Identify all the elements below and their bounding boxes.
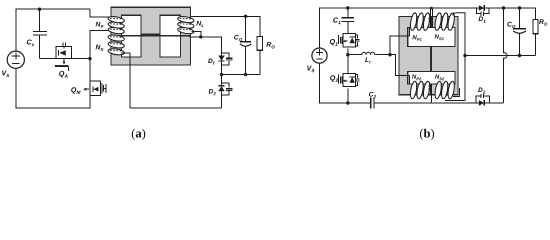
label N_S2 [435, 74, 444, 80]
diode D_2 (a) with snubber capacitor [218, 75, 232, 108]
winding N_S2 [434, 81, 460, 99]
transformer T2 core (b) [399, 17, 458, 95]
capacitor C_2 [371, 98, 479, 109]
node N_L bottom junction (a) [199, 35, 202, 38]
wire V_S top to rail (a) [15, 9, 17, 51]
label Q_2 [330, 75, 338, 82]
caption (b) [420, 129, 434, 140]
wire output mid rail (a) [222, 74, 260, 76]
wire output return vertical (b) [504, 8, 508, 103]
wire Q_M source down (a) [89, 96, 91, 108]
label D_2 (b) [478, 87, 485, 93]
wire to D_f (a) [190, 37, 222, 56]
label N_P [96, 22, 104, 28]
label Q_1 [330, 39, 338, 46]
label V_S (b) [307, 66, 314, 72]
node junction C_c top (a) [38, 8, 41, 11]
label R_O (a) [266, 42, 274, 48]
wire switch node vertical (a) [89, 30, 91, 81]
node output mid rail junction (b) [463, 54, 466, 57]
label N_P2 [412, 74, 421, 80]
transistor Q_M [83, 81, 106, 96]
node D_f bottom junction (a) [220, 73, 223, 76]
transistor Q_1 [338, 34, 359, 47]
winding N_P [108, 16, 125, 35]
diode D_1 with snubber capacitor [476, 5, 503, 16]
capacitor C_c [33, 9, 47, 58]
resistor R_O (b) [533, 20, 538, 56]
voltage source V_S (a) [7, 51, 24, 68]
label D_1 [479, 16, 486, 22]
wire top rail (a) [15, 8, 90, 10]
wire bottom rail secondary (a) [130, 107, 222, 109]
node C_O top junction (b) [518, 6, 521, 9]
wire N_S1 right vertical (b) [445, 13, 465, 101]
wire Q_2 source down (b) [347, 88, 349, 103]
label Q_M [71, 87, 80, 94]
wire output mid rail (b) [465, 55, 535, 57]
winding N_S [108, 34, 125, 56]
caption (a) [132, 129, 145, 140]
wire step to N_P top (a) [90, 9, 111, 17]
resistor R_O (a) [246, 37, 263, 75]
winding N_L [177, 16, 194, 35]
capacitor C_O (a) [240, 16, 251, 74]
wire bottom rail primary (a) [16, 68, 91, 108]
wire N_L top to output rail (a) [190, 16, 260, 36]
wire N_P bottom exit (a) [90, 29, 108, 31]
wire center windings to top rail (b) [430, 7, 433, 28]
wire V_S bottom to rail (b) [320, 63, 371, 103]
capacitor C_O (b) [513, 8, 526, 56]
wire C_c to Q_A [40, 58, 54, 60]
wire center windings to bottom rail (b) [431, 85, 433, 104]
node Q_2 bottom junction (b) [346, 101, 349, 104]
wire N_S exit down (a) [121, 53, 130, 108]
winding N_P2 [409, 75, 431, 99]
label N_S [96, 45, 104, 51]
label V_S (a) [2, 71, 9, 77]
node L_r junction (b) [346, 53, 349, 56]
wire N_P2 entry overlay (b) [399, 74, 410, 76]
winding N_P1 [409, 12, 431, 36]
label C_O (a) [234, 35, 242, 41]
wire N_L bottom exit (a) [192, 32, 201, 37]
label L_r [365, 57, 371, 63]
label D_2 (a) [209, 89, 216, 95]
node C_O bottom junction (b) [518, 54, 521, 57]
transformer T1 core (a) [111, 7, 191, 65]
inductor L_r [348, 52, 390, 55]
node C_1 top junction (b) [346, 6, 349, 9]
wire Q_1 to Q_2 (b) [347, 49, 349, 74]
diode D_f with snubber capacitor [218, 53, 232, 75]
label Q_A [59, 71, 67, 78]
wire top output rail (b) [504, 8, 536, 20]
transistor Q_2 [338, 73, 359, 86]
winding N_S1 [434, 12, 465, 30]
node primary junction (b) [388, 53, 391, 56]
wire to N_P2 (b) [390, 55, 410, 76]
label C_1 [333, 17, 340, 24]
wire N_P1 entry overlay (b) [399, 35, 410, 37]
label N_S1 [435, 34, 444, 40]
label N_L [196, 21, 203, 27]
wire to N_P1 (b) [390, 36, 410, 55]
diode D_2 (b) with snubber capacitor [476, 94, 504, 106]
wire V_S top to rail (b) [320, 8, 479, 48]
wire Q_A to node (a) [72, 58, 90, 60]
label R_O (b) [539, 19, 547, 25]
transistor Q_A [53, 42, 72, 71]
node switch junction (a) [88, 57, 91, 60]
label N_P1 [413, 35, 422, 41]
voltage source V_S (b) [312, 48, 327, 63]
label C_O (b) [507, 22, 515, 28]
node C_O bottom junction (a) [244, 73, 247, 76]
capacitor C_1 [341, 8, 354, 34]
node D_2 return junction (b) [502, 6, 505, 9]
label C_2 [369, 92, 376, 98]
node C_O top junction (a) [244, 15, 247, 18]
label C_c [27, 39, 35, 46]
label D_f [208, 58, 215, 64]
